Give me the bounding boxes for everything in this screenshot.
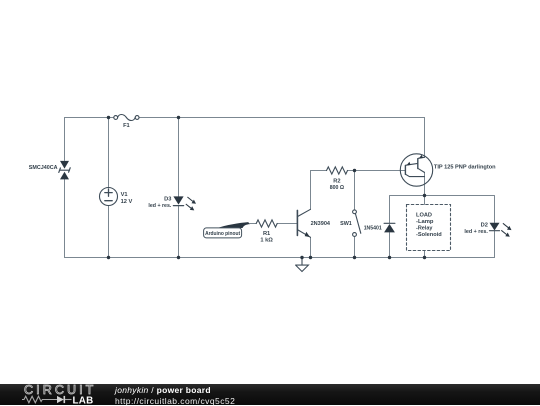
svg-text:LOAD: LOAD	[416, 213, 432, 219]
svg-text:led + res.: led + res.	[464, 229, 488, 235]
svg-text:12 V: 12 V	[121, 199, 133, 205]
svg-text:D2: D2	[481, 222, 488, 228]
svg-text:TIP 125 PNP darlington: TIP 125 PNP darlington	[434, 164, 496, 170]
svg-text:-Relay: -Relay	[416, 226, 433, 232]
svg-text:SMCJ40CA: SMCJ40CA	[29, 165, 58, 171]
svg-text:led + res.: led + res.	[148, 203, 171, 209]
svg-text:R1: R1	[263, 231, 270, 237]
svg-text:F1: F1	[123, 123, 130, 129]
svg-text:1N5401: 1N5401	[364, 226, 382, 232]
svg-text:Arduino pinout: Arduino pinout	[205, 231, 240, 237]
svg-text:2N3904: 2N3904	[311, 221, 331, 227]
svg-text:-Solenoid: -Solenoid	[416, 232, 442, 238]
svg-text:LAB: LAB	[73, 395, 94, 405]
svg-text:SW1: SW1	[340, 221, 352, 227]
svg-text:V1: V1	[121, 192, 128, 198]
svg-text:1 kΩ: 1 kΩ	[260, 238, 273, 244]
svg-text:D3: D3	[164, 196, 171, 202]
svg-text:-Lamp: -Lamp	[416, 219, 434, 225]
svg-text:R2: R2	[333, 178, 340, 184]
svg-text:800 Ω: 800 Ω	[330, 185, 345, 191]
